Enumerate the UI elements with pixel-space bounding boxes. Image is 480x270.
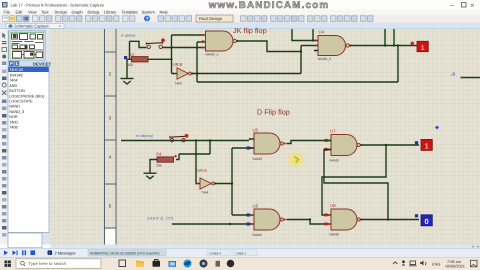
wire U7 out to probe P2	[361, 144, 420, 146]
logic probe P2 showing 1	[421, 139, 432, 150]
wire vertical x301 (links U4 pin2, U1 out, U9:B out)	[300, 46, 302, 74]
wire vertical x171.5 (to R3 / U9B input)	[171, 35, 173, 74]
svg-text:74HC00: 74HC00	[9, 68, 23, 72]
svg-text:NAND: NAND	[330, 233, 340, 237]
ground (D section)	[144, 173, 157, 179]
wire horizontal y154	[179, 153, 210, 155]
svg-text:File: File	[4, 9, 11, 14]
svg-text:U6: U6	[253, 204, 259, 209]
nand gate U5	[247, 128, 287, 162]
svg-text:Design: Design	[55, 9, 67, 14]
bottom scroll strip	[51, 245, 480, 249]
wire U6 out to U8 pin2 (jog)	[287, 220, 332, 225]
stop	[31, 250, 36, 255]
svg-text:U9:A: U9:A	[197, 168, 207, 173]
svg-text:DEVICES: DEVICES	[33, 61, 52, 66]
svg-text:Schematic Capture: Schematic Capture	[14, 24, 50, 29]
pin state dots (red) at U7 inputs	[324, 139, 327, 142]
wire R3 right to junction	[148, 58, 172, 60]
pause	[22, 250, 24, 255]
step	[13, 250, 17, 255]
svg-text:P: P	[10, 61, 13, 66]
svg-text:7404: 7404	[201, 191, 209, 195]
svg-text:NOR: NOR	[9, 115, 18, 119]
svg-text:ENG: ENG	[432, 262, 440, 267]
messages	[48, 250, 53, 255]
svg-text:?: ?	[146, 17, 149, 23]
junction at (171.5,59.3)	[170, 58, 172, 60]
resistor R3	[128, 52, 149, 67]
wire U8 out to probe P3	[361, 219, 420, 221]
svg-text:NAND_3: NAND_3	[9, 110, 24, 114]
svg-text:D Flip flop: D Flip flop	[257, 108, 290, 117]
wire vertical x196 down to U9:A input	[196, 141, 200, 184]
svg-text:Lab 17 - Proteus 8 Professiona: Lab 17 - Proteus 8 Professional - Schema…	[11, 3, 105, 8]
nand gate U7	[328, 129, 364, 163]
wire U1 output (stepped, to junction at x301)	[237, 41, 302, 52]
svg-text:NAND: NAND	[253, 233, 263, 237]
wire R4 right leg	[176, 154, 179, 160]
svg-text:Root Design: Root Design	[199, 16, 223, 21]
pin state dot (red) on B1	[161, 38, 165, 42]
start button	[5, 261, 11, 267]
wire to U6 pin1	[232, 214, 255, 216]
junction on output at x197	[196, 72, 198, 74]
svg-text:U8: U8	[330, 203, 336, 208]
mouse cursor highlight (yellow)	[287, 151, 306, 169]
play	[4, 250, 8, 255]
wire to U6 pin2	[172, 223, 255, 225]
junction at (301,51.5)	[300, 50, 302, 52]
pin state dots (red) at U8 inputs	[324, 213, 327, 216]
wire vertical x401 down to lower feedback	[397, 46, 399, 83]
wire U9:A output to vertical x232	[214, 183, 232, 185]
wire U4 output to probe P1	[350, 45, 418, 47]
svg-text:R3: R3	[129, 52, 135, 57]
svg-text:-1465.1: -1465.1	[235, 251, 246, 255]
wire vertical x313 from top	[312, 29, 314, 41]
svg-text:System: System	[142, 9, 156, 14]
svg-text:Graph: Graph	[72, 9, 83, 14]
svg-text:R4: R4	[156, 152, 162, 157]
wire to U4 pin2	[301, 45, 319, 47]
svg-text:7408: 7408	[9, 126, 17, 130]
net label A with dangling wire (right)	[451, 72, 480, 79]
pin state dot (red) at probe P1	[411, 42, 414, 45]
bottom white box	[8, 233, 42, 248]
wire B1 to gate U1 pin3	[163, 47, 207, 49]
svg-text:JK flip flop: JK flip flop	[233, 26, 267, 35]
pin state dot (blue) at probe P3	[415, 214, 418, 217]
main D wire y140.5	[121, 140, 249, 142]
svg-text:NAND_3: NAND_3	[206, 53, 219, 57]
svg-text:–: –	[450, 2, 454, 9]
svg-text:7404: 7404	[175, 81, 183, 85]
svg-text:Edit: Edit	[16, 9, 24, 14]
wire vertical x394 from top	[393, 29, 395, 46]
nand gate U1 (3-input NAND_3)	[202, 31, 239, 57]
junction at (310,219.5)	[309, 218, 311, 220]
svg-text:NAND: NAND	[330, 159, 340, 163]
search box	[16, 259, 101, 269]
sheet border bottom white cell	[105, 229, 116, 245]
wire to U5 pin2	[232, 147, 255, 149]
junction at x171.5 on button wire	[170, 46, 172, 48]
svg-text:U4: U4	[319, 30, 325, 35]
wire U7 stubs	[326, 141, 332, 150]
resistor R4	[156, 152, 177, 168]
inverter U9:A	[197, 168, 218, 195]
wire vertical x232 (to U5 pin2 and U6 pin1)	[231, 148, 233, 215]
svg-text:10k: 10k	[128, 63, 134, 67]
svg-text:LOGICPROBE (BIG): LOGICPROBE (BIG)	[9, 94, 45, 98]
wire to U1 pin1	[172, 34, 207, 36]
ground (JK section)	[121, 79, 134, 85]
svg-text:clkEN Q_fl(f): clkEN Q_fl(f)	[147, 217, 174, 221]
svg-text:U9:B: U9:B	[173, 62, 183, 67]
svg-text:7400: 7400	[9, 120, 17, 124]
list box	[8, 67, 49, 233]
junction at (386,145)	[385, 144, 387, 146]
wire vertical x292 from top to U4 pin1	[292, 29, 319, 41]
svg-text:Debug: Debug	[88, 9, 100, 14]
svg-text:m clk(ena): m clk(ena)	[136, 134, 153, 138]
svg-text:×: ×	[470, 3, 474, 10]
svg-text:7404: 7404	[9, 79, 17, 83]
inverter U9:B	[173, 62, 195, 85]
svg-text:1N4148: 1N4148	[9, 74, 22, 78]
tray	[393, 262, 397, 264]
nand gate U8	[328, 203, 364, 237]
button B2 (D input switch)	[170, 135, 186, 142]
junction at (230,224)	[229, 223, 231, 225]
lower feedback wire y80.5	[197, 81, 398, 83]
wire stub to U1 pin2	[197, 41, 206, 43]
wire vertical x385 (feedback up/off-screen, joins y73.5 line)	[384, 29, 386, 46]
svg-text:1: 1	[425, 142, 429, 151]
svg-text:Help: Help	[160, 9, 169, 14]
svg-text:View: View	[28, 9, 37, 14]
svg-text:+2463.4: +2463.4	[209, 251, 221, 255]
svg-text:0: 0	[425, 217, 429, 226]
svg-text:1: 1	[421, 45, 425, 52]
svg-text:Template: Template	[122, 9, 139, 14]
svg-text:LOGICSTATE: LOGICSTATE	[9, 100, 33, 104]
taskbar icons	[119, 260, 126, 267]
nand gate U4 (3-input NAND_3)	[315, 30, 353, 61]
junction at (196,154)	[195, 153, 197, 155]
wire from label, jog to button B1	[130, 41, 147, 47]
junction at (313,40.5)	[312, 39, 314, 41]
pin state dot (blue) at probe P2	[415, 141, 418, 144]
junction at (232,183.5)	[231, 182, 233, 184]
svg-text:ANIMATING: 00:00:26.350000 (CP: ANIMATING: 00:00:26.350000 (CPU load 0%)	[90, 251, 159, 255]
svg-text:BUTTON: BUTTON	[9, 89, 25, 93]
svg-text:Tool: Tool	[41, 9, 48, 14]
wire vertical x197 (U1 pin2 to lower feedback)	[196, 42, 198, 82]
wire R4 left to ground	[150, 160, 157, 174]
sheet border column	[105, 29, 117, 245]
svg-text:Library: Library	[104, 9, 116, 14]
overview window	[9, 31, 46, 61]
svg-text:A: A	[451, 72, 456, 78]
junction at (385,45.5)	[384, 44, 386, 46]
svg-text:m q(ena): m q(ena)	[121, 34, 135, 38]
junction at (388,219.5)	[387, 218, 389, 220]
nand gate U6	[247, 204, 287, 238]
logic probe P1 showing 1	[417, 41, 428, 52]
pin state dot (red) on B2	[185, 134, 189, 138]
wire U5 stubs	[249, 139, 255, 148]
junction at (401,45.5)	[397, 44, 399, 46]
logic probe P3 showing 0	[421, 215, 432, 226]
wire U9:B output line (to x301)	[191, 73, 301, 75]
svg-text:2 Messages: 2 Messages	[55, 251, 76, 256]
svg-text:06/09/2021: 06/09/2021	[446, 263, 465, 268]
svg-text:U5: U5	[253, 128, 259, 133]
svg-text:10k: 10k	[156, 163, 162, 167]
wire U9:B input stub	[172, 73, 178, 75]
junction at (394,45.5)	[393, 44, 395, 46]
junction x210 on main wire	[209, 139, 211, 141]
junction x196 on main wire	[195, 139, 197, 141]
wire feedback U7out to U8 pin1	[322, 145, 386, 215]
junction at (197,47.5)	[196, 46, 198, 48]
wire feedback U8out to U7 pin2	[324, 150, 388, 221]
svg-text:L: L	[16, 61, 19, 66]
pin state dot (blue) at R3 left	[124, 56, 127, 59]
wire U5 out to U7 pin1 (jog)	[287, 141, 332, 144]
wire vertical x210	[209, 141, 211, 155]
svg-text:Type here to search: Type here to search	[29, 261, 68, 266]
origin marker (blue diamond)	[435, 126, 439, 130]
button B1 (JK input switch)	[146, 41, 162, 48]
svg-text:NAND_3: NAND_3	[318, 57, 331, 61]
svg-text:U7: U7	[330, 129, 336, 134]
svg-text:AND: AND	[9, 84, 17, 88]
svg-text:NAND: NAND	[9, 105, 20, 109]
P L DEVICES header	[8, 61, 51, 67]
svg-text:NAND: NAND	[253, 157, 263, 161]
wire R3 left down to ground	[127, 59, 132, 78]
wire stub U4 pin3	[314, 50, 319, 52]
wire label branch down to R3	[129, 41, 131, 59]
